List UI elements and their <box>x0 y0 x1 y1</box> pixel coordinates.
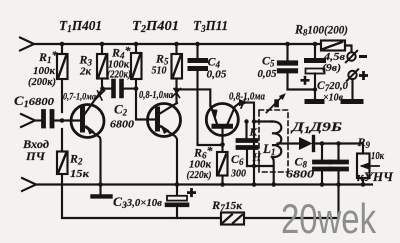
resistor R9 <box>357 154 370 185</box>
svg-text:С33,0×10в: С33,0×10в <box>113 195 163 210</box>
node collector T1 <box>100 86 105 91</box>
svg-text:300: 300 <box>230 168 246 180</box>
node common C8 <box>320 182 325 187</box>
node common tank <box>252 182 257 187</box>
input arrow top (supply) <box>20 38 34 51</box>
node rail R4 <box>134 42 139 47</box>
current arrow T3 <box>239 99 248 109</box>
svg-text:100к: 100к <box>189 160 212 171</box>
node common shield <box>271 182 276 187</box>
label current T3 <box>229 92 265 103</box>
label C5 <box>258 54 277 81</box>
wire common rail <box>36 183 372 185</box>
svg-text:Н: Н <box>252 152 262 164</box>
wire N tap <box>247 165 274 167</box>
resistor R4 <box>131 44 142 89</box>
svg-text:0,7-1,0ма: 0,7-1,0ма <box>63 93 96 103</box>
label C8 <box>286 155 315 181</box>
svg-text:510: 510 <box>152 65 167 77</box>
label C4 <box>207 55 228 81</box>
svg-text:R715к: R715к <box>211 198 242 213</box>
capacitor C4 <box>190 44 223 145</box>
capacitor C1 <box>44 112 83 127</box>
polarity plus C7 <box>301 76 310 85</box>
label current T1 <box>63 93 96 103</box>
transistor T2 <box>148 103 181 185</box>
wire K tap <box>254 120 272 122</box>
svg-text:Т1П401: Т1П401 <box>59 19 102 35</box>
capacitor C7 <box>306 44 325 99</box>
label plus <box>359 71 368 80</box>
output arrow <box>360 163 380 170</box>
capacitor C8 <box>315 144 331 185</box>
svg-text:К: К <box>249 127 258 139</box>
svg-text:15к: 15к <box>70 168 89 180</box>
label C3 <box>113 195 163 210</box>
label C7 <box>317 78 348 104</box>
capacitor C3 <box>167 185 187 219</box>
node C7 lead <box>313 87 317 91</box>
node rail R1 <box>60 42 65 47</box>
tuning arrow <box>267 93 286 112</box>
capacitor C6 <box>238 122 256 167</box>
svg-text:Т3П11: Т3П11 <box>193 19 228 35</box>
node common T2 emitter <box>175 182 180 187</box>
label T2 <box>132 19 179 35</box>
label R9 <box>357 135 385 162</box>
node base T1 <box>60 118 65 123</box>
svg-text:0,05: 0,05 <box>258 68 277 80</box>
input arrow bottom (common) <box>22 178 36 191</box>
ground bar common <box>93 185 111 197</box>
label R4 <box>107 44 132 81</box>
svg-text:кУНЧ: кУНЧ <box>357 170 394 184</box>
current mark T1 <box>96 91 105 101</box>
svg-text:R8100(200): R8100(200) <box>294 23 348 38</box>
wire T2 collector to T3 emitter <box>177 89 211 106</box>
label input <box>22 137 49 163</box>
node common R6 <box>220 182 225 187</box>
svg-text:(9в): (9в) <box>322 62 341 74</box>
wire input to C1 <box>35 119 43 121</box>
inductor L1 <box>272 121 281 157</box>
svg-text:ПЧ: ПЧ <box>25 149 46 163</box>
terminal plus <box>347 69 358 98</box>
wire L1 tap to diode <box>278 142 300 144</box>
svg-text:×10в: ×10в <box>323 92 343 104</box>
shield dashed box <box>259 110 288 172</box>
svg-text:0,05: 0,05 <box>207 69 228 81</box>
watermark <box>281 195 377 242</box>
capacitor C5 <box>280 44 316 90</box>
node base T2 <box>134 86 139 91</box>
terminal minus <box>346 51 357 63</box>
capacitor C9 <box>331 144 347 185</box>
label C1 <box>14 94 55 109</box>
resistor R7 <box>221 213 244 225</box>
transistor T3 <box>206 103 240 145</box>
node C6 top <box>244 119 248 123</box>
label T1 <box>59 19 102 35</box>
wire R4 to base T2 <box>136 89 155 120</box>
label battery voltage <box>322 51 345 74</box>
wire collector T1 to C2 <box>102 88 112 90</box>
label L1 <box>262 141 275 157</box>
current mark T2 <box>173 89 181 98</box>
node diode C8 <box>320 141 325 146</box>
ground bar C5 C7 <box>307 99 322 104</box>
capacitor C2 <box>114 81 137 96</box>
wire T3 collector to tank <box>240 103 254 185</box>
wire bottom bus right <box>244 185 339 219</box>
node rail C7 <box>313 42 318 47</box>
node T2 collector junction <box>174 87 178 91</box>
resistor R2 <box>57 129 68 174</box>
node base T3 <box>220 142 225 147</box>
node diode C9 <box>336 141 341 146</box>
svg-text:10к: 10к <box>371 150 384 162</box>
svg-text:С16800: С16800 <box>14 94 55 109</box>
svg-text:6800: 6800 <box>110 119 135 131</box>
svg-text:(200к): (200к) <box>28 76 56 88</box>
label C2 <box>110 102 135 131</box>
label current T2 <box>139 90 173 101</box>
label R7 <box>211 198 242 213</box>
svg-text:Т2П401: Т2П401 <box>132 19 179 35</box>
label N tap <box>252 152 262 164</box>
svg-text:(220к): (220к) <box>187 170 212 181</box>
svg-text:Д1Д9Б: Д1Д9Б <box>291 119 342 135</box>
node rail C4 <box>195 42 200 47</box>
label R3 <box>79 53 93 78</box>
resistor R6 <box>217 145 228 185</box>
ground bar battery <box>343 99 361 104</box>
node rail C5 <box>285 42 290 47</box>
svg-text:6800: 6800 <box>286 169 315 181</box>
label R2 <box>69 152 89 181</box>
label T3 <box>193 19 228 35</box>
node N tap <box>252 164 256 168</box>
label C6 <box>230 152 246 180</box>
label R5 <box>152 52 170 77</box>
label R1 <box>28 48 59 88</box>
wire bottom bus left <box>62 174 221 218</box>
diode D1 <box>299 137 363 154</box>
label output <box>357 170 394 184</box>
wire shield to rail <box>272 157 274 185</box>
resistor R3 <box>97 44 107 89</box>
svg-text:0,8-1,0ма: 0,8-1,0ма <box>139 90 173 101</box>
svg-text:0,8-1,0ма: 0,8-1,0ма <box>229 92 265 103</box>
node common C9 <box>336 182 341 187</box>
resistor R5 <box>172 44 183 103</box>
node rail R5 <box>174 42 179 47</box>
label R8 <box>294 23 348 38</box>
polarity plus C3 <box>187 188 196 197</box>
label K tap <box>249 127 258 139</box>
node common R9 <box>361 182 366 187</box>
node K tap <box>252 119 256 123</box>
transistor T1 <box>71 89 104 185</box>
label D1 <box>291 119 342 135</box>
label R6 <box>187 144 214 182</box>
node common T1 emitter <box>98 182 103 187</box>
wire top supply rail <box>34 43 321 45</box>
resistor R1 <box>57 44 68 112</box>
svg-text:(220к): (220к) <box>107 69 131 81</box>
svg-text:20wek: 20wek <box>281 195 377 242</box>
input arrow middle (signal) <box>21 114 35 127</box>
label minus <box>359 55 367 58</box>
svg-text:2к: 2к <box>79 66 91 78</box>
node rail R3 <box>100 42 105 47</box>
resistor R8 <box>321 41 352 53</box>
